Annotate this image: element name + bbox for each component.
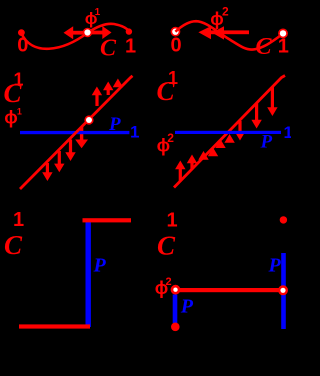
svg-text:C: C	[256, 34, 273, 60]
wire: wavy interval curve C	[22, 24, 130, 49]
svg-text:C: C	[100, 36, 117, 62]
svg-text:2: 2	[222, 5, 229, 19]
svg-text:2: 2	[167, 131, 174, 145]
up arrow 3	[198, 151, 208, 160]
svg-text:1: 1	[13, 209, 24, 231]
label phi^1	[85, 7, 101, 28]
node: repelling fixed point (white dot)	[83, 28, 92, 37]
down arrow 3	[267, 87, 277, 116]
down arrow 1	[42, 163, 52, 181]
node 1 (filled red dot)	[126, 28, 132, 34]
svg-text:C: C	[4, 230, 23, 260]
down arrow 3	[65, 140, 75, 162]
svg-text:1: 1	[130, 123, 139, 142]
node: open endpoint right (white circle)	[278, 285, 288, 295]
svg-text:0: 0	[171, 35, 182, 57]
wire: wavy interval curve C	[175, 21, 282, 49]
wire: left blue vertical P	[173, 295, 178, 324]
down arrow 2	[54, 151, 64, 172]
up arrow 1	[92, 87, 102, 107]
wire: right blue vertical P	[281, 253, 286, 329]
label phi^1 (axis)	[4, 107, 22, 128]
svg-text:1: 1	[17, 107, 22, 117]
svg-text:P: P	[260, 132, 273, 153]
down arrow 2	[251, 104, 261, 129]
svg-text:1: 1	[125, 36, 136, 58]
node: fixed point on diagonal (white dot)	[84, 115, 93, 124]
node 0 (open white dot)	[171, 27, 181, 37]
wire: blue horizontal line P	[175, 131, 281, 134]
svg-text:1: 1	[278, 36, 289, 58]
node: open endpoint left (white circle)	[171, 285, 181, 295]
node 0 (filled red dot)	[18, 29, 25, 36]
wire: upper red branch	[83, 218, 132, 222]
svg-text:P: P	[268, 255, 282, 277]
wire: blue horizontal line P	[20, 131, 129, 134]
wire: lower red branch	[19, 324, 90, 328]
arrow left from fixed point	[64, 26, 89, 39]
svg-text:1: 1	[95, 7, 101, 18]
up arrow 2	[103, 82, 113, 96]
node 1 (open white dot)	[278, 29, 288, 39]
up arrow 6 (tiny, at intersection)	[224, 134, 234, 143]
up arrow 1	[175, 161, 185, 182]
svg-text:ϕ: ϕ	[4, 107, 17, 127]
down arrow 1 (small)	[235, 121, 245, 141]
svg-text:1: 1	[284, 123, 292, 142]
down arrow 4 (below fixed point)	[75, 127, 88, 148]
svg-text:P: P	[180, 296, 194, 318]
svg-text:P: P	[108, 114, 121, 135]
arrow pointing left (double head)	[198, 26, 249, 39]
up arrow 4 (small)	[208, 148, 218, 157]
svg-text:1: 1	[167, 210, 178, 232]
node: red dot (image of right branch)	[280, 216, 287, 223]
svg-text:C: C	[157, 76, 176, 106]
wire: red diagonal (graph of phi^2)	[174, 76, 285, 188]
up arrow 3	[113, 79, 123, 88]
svg-text:2: 2	[166, 276, 172, 288]
arrow right from fixed point	[88, 26, 112, 39]
wire: red horizontal segment	[177, 288, 281, 292]
svg-text:P: P	[93, 255, 107, 277]
up arrow 2	[187, 155, 197, 170]
label phi^2 (axis)	[157, 131, 175, 156]
svg-text:C: C	[4, 78, 23, 108]
label phi^2 (axis)	[155, 276, 172, 298]
node: red dot (bottom of left P)	[171, 323, 180, 332]
up arrow 5 (small)	[215, 139, 225, 148]
wire: blue vertical line P	[86, 220, 91, 328]
wire: red diagonal (graph of phi^1)	[20, 76, 133, 189]
svg-text:C: C	[157, 231, 176, 261]
label phi^2	[210, 5, 229, 29]
